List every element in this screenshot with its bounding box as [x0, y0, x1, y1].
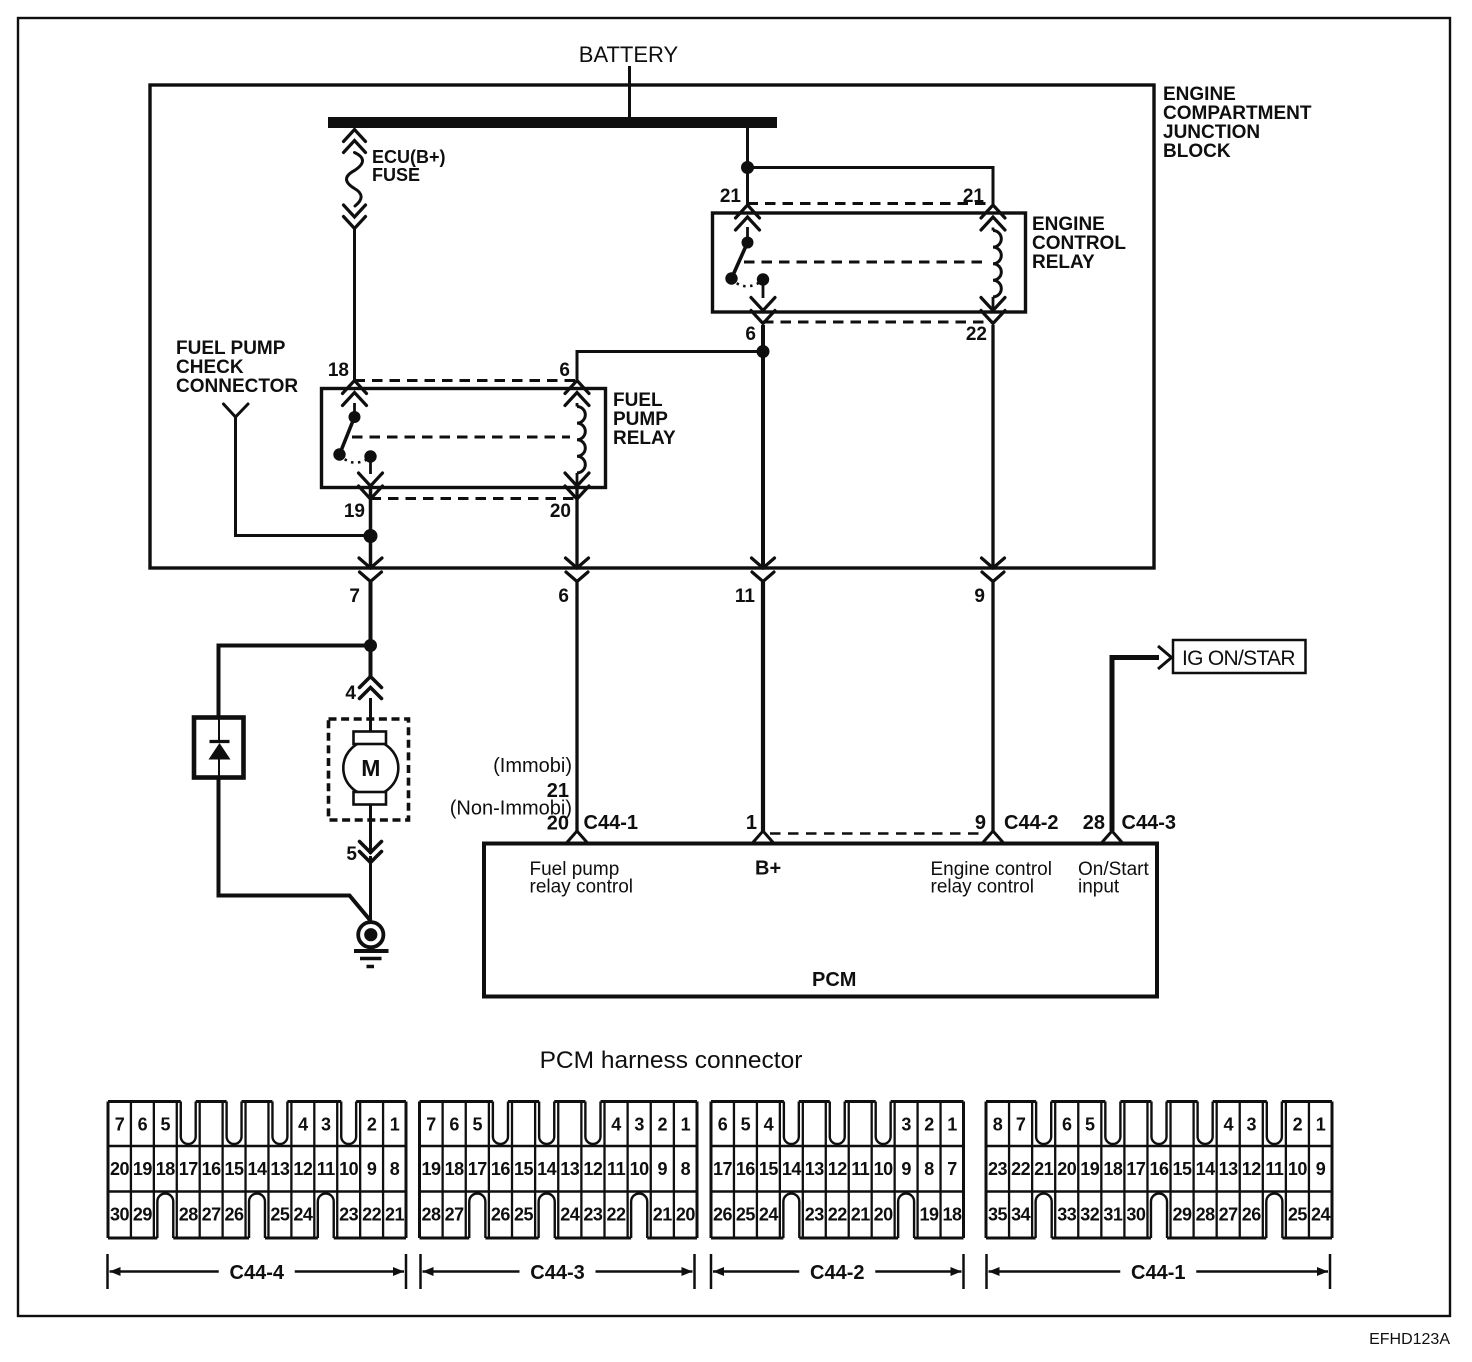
- svg-text:4: 4: [764, 1115, 774, 1135]
- svg-text:17: 17: [713, 1159, 733, 1179]
- label FUEL PUMP RELAY: [613, 390, 676, 449]
- svg-text:16: 16: [736, 1159, 756, 1179]
- svg-text:10: 10: [874, 1159, 894, 1179]
- label B+: [755, 858, 781, 880]
- svg-text:28: 28: [422, 1205, 442, 1225]
- svg-text:29: 29: [1173, 1205, 1193, 1225]
- label EFHD123A: [1369, 1331, 1450, 1348]
- svg-text:1: 1: [1316, 1115, 1326, 1135]
- svg-text:3: 3: [321, 1115, 331, 1135]
- svg-text:8: 8: [924, 1159, 934, 1179]
- svg-text:8: 8: [681, 1159, 691, 1179]
- wire check connector to node 19: [236, 417, 371, 536]
- svg-text:32: 32: [1080, 1205, 1100, 1225]
- svg-text:2: 2: [1293, 1115, 1303, 1135]
- pin 19: [344, 473, 383, 522]
- svg-text:1: 1: [390, 1115, 400, 1135]
- svg-text:B+: B+: [755, 858, 781, 880]
- svg-text:27: 27: [1219, 1205, 1239, 1225]
- svg-text:26: 26: [225, 1205, 245, 1225]
- dimension C44-2: [711, 1254, 964, 1289]
- diode D1: [209, 718, 231, 778]
- svg-text:7: 7: [349, 586, 360, 607]
- node battery feed junction: [741, 161, 754, 174]
- svg-text:EFHD123A: EFHD123A: [1369, 1331, 1450, 1348]
- wire pin 11 to PCM pin 1: [761, 582, 765, 831]
- svg-text:4: 4: [345, 683, 356, 704]
- svg-text:14: 14: [1196, 1159, 1216, 1179]
- wire pin 6 down to B+ node: [761, 325, 765, 568]
- pin 5 chevrons: [346, 842, 381, 866]
- relay coil (engine control relay): [993, 228, 1001, 311]
- wire pin 19 down: [369, 487, 373, 568]
- svg-text:23: 23: [805, 1205, 825, 1225]
- svg-text:20: 20: [550, 501, 571, 522]
- svg-text:30: 30: [1126, 1205, 1146, 1225]
- svg-text:22: 22: [966, 324, 987, 345]
- wire battery lead: [628, 66, 631, 124]
- svg-text:9: 9: [901, 1159, 911, 1179]
- svg-text:25: 25: [736, 1205, 756, 1225]
- svg-text:17: 17: [1126, 1159, 1146, 1179]
- engine control relay box: [713, 213, 1026, 312]
- label Fuel pump relay control: [530, 859, 634, 898]
- svg-text:18: 18: [156, 1159, 176, 1179]
- svg-text:ENGINE: ENGINE: [1032, 214, 1105, 235]
- wire branch to diode: [219, 646, 371, 718]
- ground symbol: [354, 922, 389, 966]
- dimension C44-1: [987, 1254, 1331, 1289]
- svg-text:35: 35: [988, 1205, 1008, 1225]
- wire loop to pin 21 right: [748, 168, 994, 205]
- pin 6 (junction block): [558, 558, 588, 607]
- svg-text:15: 15: [225, 1159, 245, 1179]
- svg-text:21: 21: [963, 186, 985, 207]
- svg-text:8: 8: [390, 1159, 400, 1179]
- svg-text:24: 24: [1311, 1205, 1331, 1225]
- svg-text:RELAY: RELAY: [1032, 252, 1095, 273]
- svg-text:23: 23: [583, 1205, 603, 1225]
- svg-text:10: 10: [630, 1159, 650, 1179]
- fuel pump check connector symbol: [224, 404, 249, 417]
- svg-text:18: 18: [1103, 1159, 1123, 1179]
- svg-text:14: 14: [247, 1159, 267, 1179]
- svg-text:FUEL PUMP: FUEL PUMP: [176, 338, 286, 359]
- svg-text:21: 21: [385, 1205, 405, 1225]
- svg-text:PUMP: PUMP: [613, 409, 668, 430]
- svg-text:18: 18: [328, 360, 349, 381]
- svg-text:6: 6: [559, 360, 570, 381]
- svg-text:24: 24: [759, 1205, 779, 1225]
- pin 22: [966, 298, 1005, 346]
- label Engine control relay control: [931, 859, 1052, 898]
- arrow to IG ON/STAR: [1158, 646, 1172, 669]
- pin 21 right: [963, 186, 1005, 230]
- pin 4 chevrons: [345, 677, 381, 705]
- svg-text:26: 26: [491, 1205, 511, 1225]
- svg-text:PCM: PCM: [812, 969, 856, 991]
- connector C44-1: [986, 1102, 1332, 1239]
- svg-text:20: 20: [1057, 1159, 1077, 1179]
- pin 21 left: [720, 186, 760, 230]
- connector C44-4: [108, 1102, 406, 1239]
- svg-text:PCM harness connector: PCM harness connector: [540, 1047, 803, 1074]
- svg-text:C44-2: C44-2: [1004, 812, 1058, 834]
- svg-text:BATTERY: BATTERY: [579, 42, 679, 67]
- svg-text:27: 27: [445, 1205, 465, 1225]
- label ECU(B+) FUSE: [372, 147, 446, 185]
- svg-text:(Immobi): (Immobi): [493, 755, 572, 777]
- svg-text:20: 20: [547, 813, 569, 835]
- svg-text:28: 28: [1196, 1205, 1216, 1225]
- node fuel pump branch: [364, 639, 377, 652]
- dashed wire pins 6-22: [763, 321, 993, 324]
- svg-text:15: 15: [759, 1159, 779, 1179]
- svg-text:relay control: relay control: [931, 877, 1035, 898]
- svg-text:11: 11: [851, 1159, 870, 1179]
- svg-text:6: 6: [558, 586, 569, 607]
- svg-text:24: 24: [560, 1205, 580, 1225]
- svg-text:7: 7: [947, 1159, 957, 1179]
- svg-text:2: 2: [658, 1115, 668, 1135]
- svg-text:7: 7: [426, 1115, 436, 1135]
- svg-text:29: 29: [133, 1205, 153, 1225]
- svg-text:CONTROL: CONTROL: [1032, 233, 1126, 254]
- label Immobi pins: [450, 755, 572, 835]
- svg-text:20: 20: [874, 1205, 894, 1225]
- relay switch (fuel pump relay): [333, 403, 376, 474]
- svg-text:C44-3: C44-3: [530, 1262, 584, 1284]
- svg-text:23: 23: [339, 1205, 359, 1225]
- wire pin 20 down: [575, 487, 578, 568]
- pin C44-1/20 (PCM): [566, 831, 588, 844]
- label BATTERY: [579, 42, 679, 67]
- engine compartment junction block box: [150, 85, 1154, 568]
- svg-text:9: 9: [367, 1159, 377, 1179]
- svg-text:5: 5: [346, 844, 357, 865]
- svg-text:15: 15: [1173, 1159, 1193, 1179]
- svg-text:C44-2: C44-2: [810, 1262, 864, 1284]
- svg-text:11: 11: [1265, 1159, 1284, 1179]
- motor M: [343, 732, 398, 805]
- svg-text:19: 19: [133, 1159, 153, 1179]
- svg-text:9: 9: [975, 812, 986, 834]
- svg-text:2: 2: [924, 1115, 934, 1135]
- svg-text:19: 19: [920, 1205, 940, 1225]
- svg-text:C44-1: C44-1: [1131, 1262, 1185, 1284]
- svg-text:C44-4: C44-4: [230, 1262, 285, 1284]
- wire to fuel pump motor: [369, 649, 373, 731]
- svg-text:25: 25: [1288, 1205, 1308, 1225]
- svg-text:1: 1: [681, 1115, 691, 1135]
- svg-text:1: 1: [947, 1115, 957, 1135]
- fuel pump dashed box: [329, 719, 409, 820]
- svg-text:C44-1: C44-1: [584, 812, 638, 834]
- svg-text:20: 20: [110, 1159, 130, 1179]
- svg-text:26: 26: [713, 1205, 733, 1225]
- svg-text:22: 22: [607, 1205, 627, 1225]
- svg-text:17: 17: [179, 1159, 199, 1179]
- svg-text:25: 25: [270, 1205, 290, 1225]
- wire diode to ground: [219, 778, 371, 922]
- svg-text:12: 12: [828, 1159, 848, 1179]
- svg-text:26: 26: [1242, 1205, 1262, 1225]
- svg-text:C44-3: C44-3: [1122, 812, 1176, 834]
- svg-text:FUEL: FUEL: [613, 390, 663, 411]
- svg-text:22: 22: [828, 1205, 848, 1225]
- svg-text:2: 2: [367, 1115, 377, 1135]
- diode box: [194, 718, 244, 778]
- svg-text:23: 23: [988, 1159, 1008, 1179]
- dimension C44-3: [421, 1254, 695, 1289]
- relay switch (engine control relay): [725, 227, 769, 298]
- svg-text:31: 31: [1103, 1205, 1123, 1225]
- svg-text:input: input: [1078, 877, 1120, 898]
- label pin 9: [975, 812, 986, 834]
- svg-text:4: 4: [1223, 1115, 1233, 1135]
- svg-text:7: 7: [115, 1115, 125, 1135]
- svg-text:5: 5: [1085, 1115, 1095, 1135]
- svg-text:16: 16: [491, 1159, 511, 1179]
- svg-text:21: 21: [720, 186, 742, 207]
- svg-text:12: 12: [583, 1159, 603, 1179]
- fuse ECU(B+) FUSE: [344, 130, 366, 229]
- battery bus bar: [328, 117, 777, 128]
- label C44-3: [1122, 812, 1176, 834]
- svg-text:25: 25: [514, 1205, 534, 1225]
- svg-text:6: 6: [745, 324, 756, 345]
- svg-text:5: 5: [741, 1115, 751, 1135]
- fuel pump relay box: [322, 389, 606, 488]
- wire pin 9 to PCM pin 9: [991, 582, 994, 831]
- pin 9 (PCM): [982, 831, 1004, 844]
- svg-text:27: 27: [202, 1205, 222, 1225]
- pin 28 (PCM): [1101, 831, 1123, 844]
- dashed wire pins 18-6: [355, 379, 578, 382]
- svg-text:22: 22: [1011, 1159, 1031, 1179]
- dashed wire pins 21-21: [748, 202, 994, 205]
- svg-text:6: 6: [449, 1115, 459, 1135]
- PCM box: [484, 844, 1157, 997]
- svg-text:19: 19: [344, 501, 365, 522]
- svg-text:COMPARTMENT: COMPARTMENT: [1163, 103, 1312, 124]
- svg-text:RELAY: RELAY: [613, 428, 676, 449]
- svg-text:BLOCK: BLOCK: [1163, 141, 1231, 162]
- svg-text:M: M: [361, 755, 380, 781]
- label C44-1: [584, 812, 638, 834]
- svg-text:10: 10: [339, 1159, 359, 1179]
- label pin 1: [746, 812, 757, 834]
- connector C44-3: [420, 1102, 698, 1239]
- svg-text:1: 1: [746, 812, 757, 834]
- svg-text:15: 15: [514, 1159, 534, 1179]
- label C44-2: [1004, 812, 1058, 834]
- node B+ junction: [757, 345, 770, 358]
- pin 18: [328, 360, 367, 406]
- svg-text:20: 20: [676, 1205, 696, 1225]
- dashed wire pin1-pin9: [770, 832, 986, 835]
- svg-text:12: 12: [293, 1159, 313, 1179]
- svg-text:11: 11: [607, 1159, 626, 1179]
- dashed coil-switch link (engine control relay): [744, 261, 988, 264]
- svg-text:8: 8: [993, 1115, 1003, 1135]
- svg-text:9: 9: [658, 1159, 668, 1179]
- pin 6 (engine control relay): [745, 298, 775, 346]
- svg-text:6: 6: [138, 1115, 148, 1135]
- svg-text:13: 13: [560, 1159, 580, 1179]
- svg-text:FUSE: FUSE: [372, 165, 420, 185]
- svg-text:21: 21: [653, 1205, 673, 1225]
- svg-text:7: 7: [1016, 1115, 1026, 1135]
- svg-text:28: 28: [179, 1205, 199, 1225]
- svg-text:19: 19: [422, 1159, 442, 1179]
- dimension C44-4: [108, 1254, 407, 1289]
- pin 6 (fuel pump relay): [559, 360, 589, 406]
- wire motor to ground: [369, 805, 372, 923]
- svg-text:CONNECTOR: CONNECTOR: [176, 376, 298, 397]
- svg-text:IG ON/STAR: IG ON/STAR: [1182, 647, 1295, 670]
- pin 9 (junction block): [974, 558, 1004, 607]
- label FUEL PUMP CHECK CONNECTOR: [176, 338, 298, 397]
- svg-text:16: 16: [1149, 1159, 1169, 1179]
- svg-text:34: 34: [1011, 1205, 1031, 1225]
- svg-text:4: 4: [298, 1115, 308, 1135]
- label PCM: [812, 969, 856, 991]
- svg-text:12: 12: [1242, 1159, 1262, 1179]
- label IG ON/STAR: [1182, 647, 1295, 670]
- svg-text:6: 6: [718, 1115, 728, 1135]
- pin 20: [550, 473, 589, 522]
- svg-text:4: 4: [611, 1115, 621, 1135]
- svg-text:22: 22: [362, 1205, 382, 1225]
- label PCM harness connector: [540, 1047, 803, 1074]
- svg-text:CHECK: CHECK: [176, 357, 244, 378]
- label ENGINE COMPARTMENT JUNCTION BLOCK: [1163, 84, 1312, 162]
- svg-text:10: 10: [1288, 1159, 1308, 1179]
- svg-text:3: 3: [901, 1115, 911, 1135]
- wire pin 22 down: [991, 325, 994, 568]
- pin 7 (junction block): [349, 558, 382, 607]
- svg-text:3: 3: [1247, 1115, 1257, 1135]
- svg-text:ECU(B+): ECU(B+): [372, 147, 446, 167]
- svg-text:relay control: relay control: [530, 877, 634, 898]
- svg-text:17: 17: [468, 1159, 488, 1179]
- svg-text:11: 11: [317, 1159, 336, 1179]
- wire On/Start input: [1112, 658, 1159, 832]
- IG ON/STAR box: [1173, 640, 1306, 673]
- wire pin 6 (fuel pump relay) up and over: [577, 352, 763, 381]
- svg-text:3: 3: [634, 1115, 644, 1135]
- wire pin 6 to PCM C44-1: [575, 582, 578, 831]
- node pin19/check connector junction: [364, 529, 378, 543]
- connector C44-2: [711, 1102, 964, 1239]
- svg-text:9: 9: [1316, 1159, 1326, 1179]
- svg-text:JUNCTION: JUNCTION: [1163, 122, 1260, 143]
- svg-text:5: 5: [473, 1115, 483, 1135]
- relay coil (fuel pump relay): [577, 403, 585, 486]
- svg-text:13: 13: [270, 1159, 290, 1179]
- dashed coil-switch link (fuel pump relay): [352, 436, 570, 439]
- wire pin 7 to fuel pump: [369, 582, 373, 649]
- label pin 28: [1083, 812, 1105, 834]
- svg-text:16: 16: [202, 1159, 222, 1179]
- svg-text:30: 30: [110, 1205, 130, 1225]
- svg-text:24: 24: [293, 1205, 313, 1225]
- pin 11 (junction block): [735, 558, 775, 607]
- svg-text:19: 19: [1080, 1159, 1100, 1179]
- wire battery bus to pin 21: [746, 128, 749, 204]
- svg-text:5: 5: [161, 1115, 171, 1135]
- svg-text:13: 13: [1219, 1159, 1239, 1179]
- svg-text:14: 14: [537, 1159, 557, 1179]
- svg-text:13: 13: [805, 1159, 825, 1179]
- svg-text:9: 9: [974, 586, 985, 607]
- svg-text:21: 21: [1034, 1159, 1054, 1179]
- svg-text:21: 21: [851, 1205, 871, 1225]
- pin 1 (PCM): [752, 831, 774, 844]
- svg-text:18: 18: [943, 1205, 963, 1225]
- label On/Start input: [1078, 859, 1149, 898]
- svg-text:14: 14: [782, 1159, 802, 1179]
- svg-text:11: 11: [735, 586, 756, 607]
- svg-text:33: 33: [1057, 1205, 1077, 1225]
- svg-text:28: 28: [1083, 812, 1105, 834]
- svg-text:18: 18: [445, 1159, 465, 1179]
- svg-text:6: 6: [1062, 1115, 1072, 1135]
- dashed wire pins 19-20: [371, 497, 578, 500]
- wire fuse to pin 18: [353, 228, 356, 380]
- label ENGINE CONTROL RELAY: [1032, 214, 1126, 273]
- svg-text:ENGINE: ENGINE: [1163, 84, 1236, 105]
